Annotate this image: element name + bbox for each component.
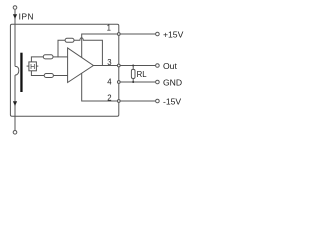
arrow primary current top [13, 14, 17, 19]
resistor hall top arm [43, 55, 53, 59]
svg-text:+15V: +15V [163, 29, 184, 39]
svg-text:Out: Out [163, 61, 177, 71]
pin 4 [117, 81, 120, 84]
junction RL bottom [132, 81, 134, 83]
terminal IPN bottom [13, 131, 17, 135]
resistor feedback [65, 38, 74, 42]
svg-text:1: 1 [107, 24, 111, 33]
wire pin1 to +15V terminal [121, 33, 156, 35]
wire resistor to op-amp minus input [53, 75, 67, 77]
wire pin4 to GND terminal [121, 81, 156, 83]
pin 2 [117, 100, 120, 103]
svg-text:RL: RL [137, 70, 148, 79]
transducer case outline [10, 24, 118, 116]
magnetic core [20, 53, 22, 92]
wire pin3 to Out terminal [121, 65, 156, 67]
wire hall top to resistor [31, 57, 43, 62]
wire hall bottom to resistor [31, 71, 44, 76]
resistor hall bottom arm [44, 74, 53, 78]
arrow primary current bottom [13, 101, 17, 106]
terminal GND [156, 80, 160, 84]
resistor RL [131, 69, 135, 78]
wire primary out [14, 75, 16, 130]
terminal Out [156, 64, 160, 68]
hall left stub [27, 65, 29, 67]
pin 1 [117, 33, 120, 36]
svg-text:4: 4 [107, 78, 112, 87]
wire RL top stub [132, 66, 134, 70]
svg-text:GND: GND [163, 78, 182, 88]
wire feedback tap [58, 40, 65, 57]
primary loop bulge [15, 66, 19, 75]
terminal IPN top [13, 6, 17, 10]
op-amp U1 [68, 48, 94, 83]
pin 3 [117, 64, 120, 67]
wire primary in [14, 10, 16, 67]
svg-text:H: H [30, 64, 35, 71]
terminal +15V [156, 32, 160, 36]
svg-text:3: 3 [107, 58, 111, 67]
svg-text:2: 2 [107, 93, 111, 102]
svg-text:IPN: IPN [19, 11, 34, 21]
wire feedback with crossover hop [74, 38, 102, 66]
wire pin2 to -15V terminal [121, 100, 156, 102]
wire +15V rail to op-amp top [82, 34, 119, 58]
wire op-amp output to pin 3 [93, 65, 118, 67]
wire RL bottom stub [132, 79, 134, 83]
hall right stub [36, 65, 38, 67]
wire resistor to op-amp plus input [53, 56, 68, 58]
junction RL top [132, 64, 134, 66]
terminal -15V [156, 99, 160, 103]
svg-text:-15V: -15V [163, 96, 181, 106]
hall element H [29, 62, 37, 71]
wire op-amp bottom to -15V rail [82, 73, 119, 101]
